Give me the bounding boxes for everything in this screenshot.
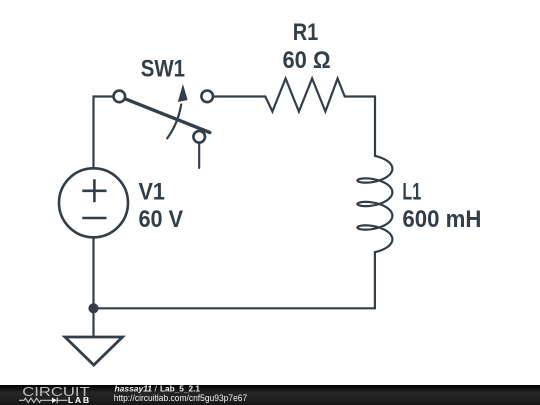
ground <box>65 337 123 365</box>
svg-text:http://circuitlab.com/cnf5gu93: http://circuitlab.com/cnf5gu93p7e67 <box>114 393 248 403</box>
svg-text:R1: R1 <box>293 19 319 46</box>
svg-text:hassay11: hassay11 <box>115 383 153 393</box>
svg-text:600 mH: 600 mH <box>402 206 481 233</box>
svg-text:60 Ω: 60 Ω <box>283 47 331 74</box>
switch throw node bottom <box>193 131 205 143</box>
svg-text:60 V: 60 V <box>139 206 184 233</box>
wire from switch to R1 <box>213 95 265 97</box>
svg-text:L1: L1 <box>402 179 421 206</box>
wire node to ground <box>92 308 94 337</box>
switch SW1 lever <box>121 97 210 133</box>
switch arrow <box>167 105 181 139</box>
node junction <box>88 303 98 313</box>
voltage source V1 <box>59 168 128 237</box>
svg-text:Lab_5_2.1: Lab_5_2.1 <box>160 383 200 393</box>
wire from R1 to L1 <box>345 97 375 157</box>
logo diode <box>52 398 57 404</box>
wire from V1 top to switch <box>94 97 115 170</box>
switch throw node right <box>201 91 213 103</box>
switch pole node <box>114 91 126 103</box>
svg-text:SW1: SW1 <box>141 55 185 82</box>
svg-text:V1: V1 <box>139 179 165 206</box>
logo resistor zigzag <box>19 398 52 402</box>
wire from L1 to bottom node <box>94 252 375 308</box>
svg-text:LAB: LAB <box>68 396 91 405</box>
inductor L1 <box>357 156 392 252</box>
switch terminal stub <box>198 142 200 168</box>
wire from V1 bottom to node <box>92 237 94 308</box>
resistor R1 <box>265 79 344 112</box>
